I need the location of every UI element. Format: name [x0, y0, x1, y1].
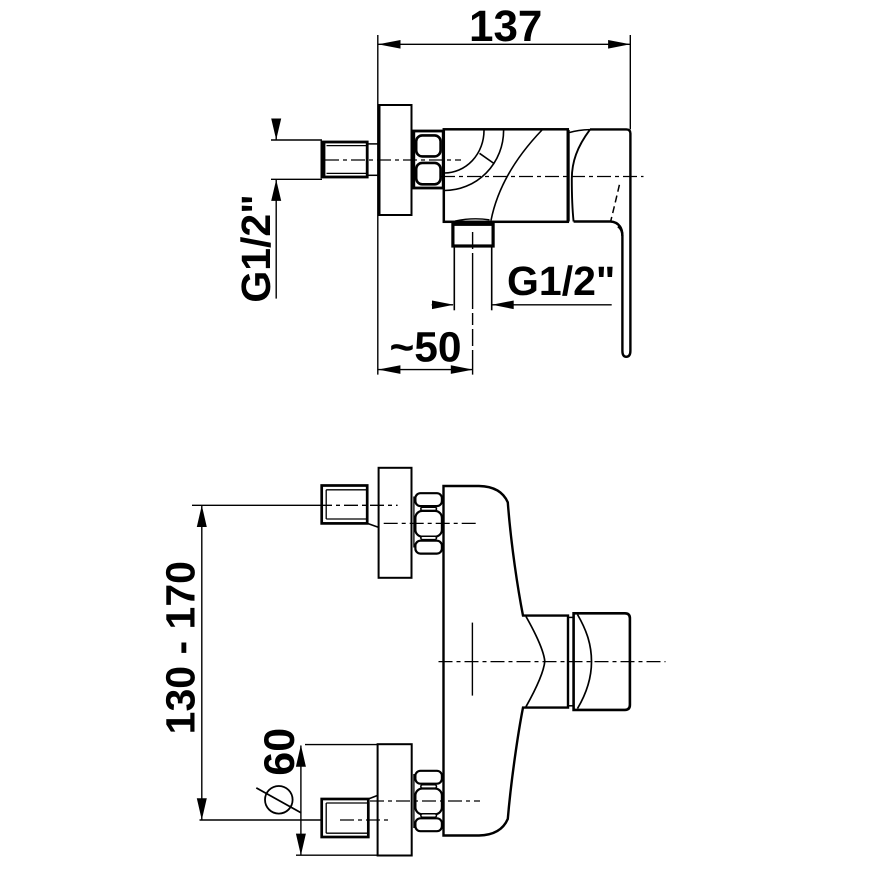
handle axis center line	[439, 661, 666, 663]
extension line right of 137	[629, 35, 631, 129]
waist cone lower curve	[526, 661, 545, 706]
svg-text:~50: ~50	[389, 325, 461, 372]
outlet center line	[472, 232, 474, 375]
hex nut (side view)	[414, 131, 443, 188]
top inlet pipe (front view)	[322, 486, 368, 524]
body vertical center tick	[471, 623, 473, 696]
outlet G1/2 dimension	[432, 301, 612, 310]
outlet nut	[453, 224, 493, 246]
body sweep arc 3	[491, 130, 542, 221]
body right edge thick	[567, 130, 570, 222]
handle knob (end view)	[574, 613, 630, 710]
mixer body (side view)	[444, 129, 568, 222]
bottom hex nut back edge	[413, 774, 415, 828]
svg-text:G1/2": G1/2"	[507, 258, 615, 304]
top wall flange (front view)	[379, 468, 412, 578]
bottom inlet pipe (front view)	[322, 799, 369, 837]
knob face arc	[578, 615, 592, 709]
inlet pipe (side view)	[322, 142, 367, 177]
diameter symbol	[256, 786, 301, 814]
svg-text:130 - 170: 130 - 170	[158, 561, 204, 734]
top hex nut back edge	[413, 497, 415, 548]
top inlet pipe axis	[318, 504, 398, 506]
dimension 60 extension top	[305, 744, 378, 746]
adapter curve	[572, 130, 590, 222]
wall flange (side view)	[380, 105, 412, 215]
dimension 60 extension bottom	[296, 854, 379, 856]
adapter top connector	[570, 130, 591, 133]
bottom inlet taper	[368, 795, 378, 799]
svg-text:60: 60	[256, 728, 304, 776]
body sweep arc 1	[444, 131, 484, 174]
groove between collar and knob	[568, 617, 574, 705]
inlet axis center line	[325, 159, 461, 161]
top inlet taper	[367, 523, 378, 527]
outlet fillet bump	[455, 219, 490, 221]
bottom inlet pipe axis	[340, 819, 389, 821]
dimension 137 line	[378, 40, 630, 49]
bottom hex nut (front view)	[415, 771, 442, 831]
waist cone upper curve	[526, 617, 545, 662]
mixer body (front view)	[444, 486, 569, 836]
svg-text:G1/2": G1/2"	[233, 194, 279, 302]
top hex nut (front view)	[415, 493, 442, 553]
dimension 130-170 extension top	[192, 504, 318, 506]
bottom wall flange (front view)	[378, 744, 412, 855]
handle hidden edge (dashed)	[611, 185, 620, 221]
svg-text:137: 137	[469, 2, 542, 51]
dimension 130-170 extension bottom	[200, 819, 341, 821]
wall line	[377, 35, 379, 375]
inlet neck to flange	[367, 144, 379, 175]
top nut axis center line	[384, 522, 480, 524]
dimension 60 line and arrows	[296, 745, 306, 855]
body axis center line	[441, 176, 644, 178]
outlet pipe edges	[454, 246, 491, 310]
handle bottom edge	[574, 222, 623, 237]
G1/2 inlet dimension extension lines	[271, 140, 322, 179]
handle lever outline	[590, 129, 630, 356]
bottom nut axis center line	[370, 800, 480, 802]
body sweep arc 2	[444, 131, 503, 191]
G1/2 inlet dimension arrows	[271, 119, 281, 299]
arc connector line	[480, 153, 495, 163]
dimension 130-170 line and arrows	[197, 505, 207, 820]
dimension ~50 line	[378, 365, 473, 374]
